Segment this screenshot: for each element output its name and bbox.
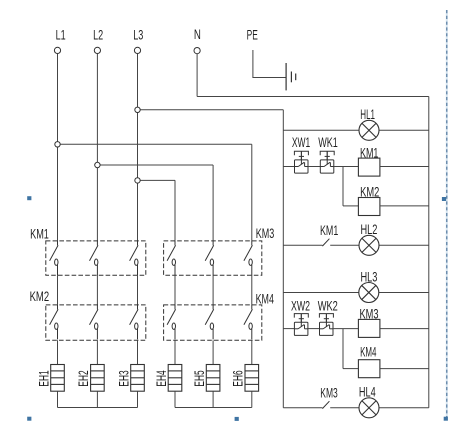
- selection dashed line: [446, 10, 448, 420]
- heater element EH6: [245, 365, 259, 392]
- heater element EH4: [168, 365, 182, 392]
- svg-text:PE: PE: [247, 28, 258, 43]
- wire L1 branch down to KM3 bank: [251, 144, 253, 241]
- svg-text:HL4: HL4: [359, 385, 376, 400]
- svg-text:KM3: KM3: [320, 386, 338, 401]
- selection grip left middle: [27, 196, 31, 200]
- wire x=57.5 between KM1 and KM2 banks: [57, 275, 59, 305]
- node L3 branch 2 junction: [135, 178, 140, 183]
- svg-text:KM1: KM1: [320, 223, 338, 238]
- contact KM4 pole 2: [205, 305, 214, 339]
- wire L3 branch down to KM3 bank: [174, 180, 176, 241]
- contactor KM4 main contacts box: [164, 305, 262, 340]
- wire branch down to KM2 coil: [342, 167, 344, 206]
- wire x=97.4 between KM1 and KM2 banks: [96, 275, 98, 305]
- selection grip right middle: [442, 197, 446, 201]
- contactor coil KM4: [358, 360, 380, 378]
- terminal L3: [134, 47, 140, 53]
- wire x=213.1 bank to heater: [212, 340, 214, 364]
- svg-text:N: N: [194, 27, 201, 42]
- contact KM2 pole 1: [50, 305, 59, 339]
- contact KM4 pole 3: [244, 305, 253, 339]
- lamp HL4: [359, 398, 379, 418]
- wire L2 branch horizontal: [97, 164, 213, 166]
- contact KM1 pole 1: [50, 241, 59, 275]
- wire L3 vertical: [137, 54, 139, 241]
- contact KM3 pole 1: [167, 241, 176, 275]
- svg-text:HL2: HL2: [361, 222, 378, 237]
- contactor KM3 main contacts box: [164, 241, 262, 275]
- svg-text:KM1: KM1: [30, 227, 49, 242]
- svg-text:KM3: KM3: [256, 226, 274, 241]
- heater element EH2: [91, 365, 105, 392]
- contactor KM2 main contacts box: [46, 305, 146, 340]
- terminal L1: [54, 47, 60, 53]
- contact KM4 pole 1: [167, 305, 176, 339]
- wire heater bottom x=175.0: [174, 391, 176, 407]
- wire KM3 coil to right bus: [380, 328, 429, 330]
- svg-text:WK2: WK2: [318, 299, 338, 314]
- svg-text:KM2: KM2: [30, 289, 49, 304]
- svg-text:L3: L3: [133, 28, 143, 43]
- wire KM1 contact to right bus: [330, 244, 429, 246]
- wire heater bottom x=251.8: [251, 391, 253, 407]
- contactor coil KM2: [358, 198, 380, 216]
- wire heater bottom x=57.5: [57, 391, 59, 407]
- thermal switch XW2: [294, 314, 308, 336]
- wire bus to XW2: [283, 328, 294, 330]
- wire WK2 to KM3 coil: [333, 328, 358, 330]
- selection grip left bottom: [27, 417, 31, 421]
- wire N vertical: [196, 54, 198, 97]
- contact KM2 pole 3: [130, 305, 139, 339]
- node L2 branch junction: [95, 162, 100, 167]
- svg-text:WK1: WK1: [318, 135, 338, 150]
- terminal L2: [94, 47, 100, 53]
- wire star point group 1: [58, 407, 138, 409]
- wire KM1 coil to right bus: [380, 166, 429, 168]
- wire HL3 row: [283, 292, 429, 294]
- wire N horizontal to right bus: [197, 96, 429, 98]
- wire XW1 to WK1: [308, 166, 320, 168]
- contact KM3 auxiliary blade: [322, 401, 329, 408]
- wire L1 branch horizontal: [58, 143, 252, 145]
- wire branch to KM4 coil: [343, 368, 358, 370]
- wire heater bottom x=137.5: [137, 391, 139, 407]
- wire bus to XW1: [283, 166, 294, 168]
- svg-text:XW2: XW2: [291, 299, 310, 314]
- contact KM3 pole 2: [205, 241, 214, 275]
- svg-text:L2: L2: [93, 28, 103, 43]
- wire heater bottom x=213.1: [212, 391, 214, 407]
- contact KM3 pole 3: [244, 241, 253, 275]
- heater element EH5: [206, 365, 220, 392]
- svg-text:EH2: EH2: [76, 370, 91, 386]
- earth ground symbol: [286, 63, 296, 90]
- svg-text:EH3: EH3: [116, 370, 131, 386]
- wire KM2 coil to right bus: [380, 205, 429, 207]
- node L1 branch junction: [55, 142, 60, 147]
- lamp HL1: [359, 120, 379, 140]
- node L3 branch junction: [135, 107, 140, 112]
- contact KM1 auxiliary blade: [322, 239, 329, 246]
- wire branch to KM2 coil: [343, 205, 358, 207]
- contactor KM1 main contacts box: [46, 241, 146, 275]
- wire L3 branch to control bus: [138, 109, 284, 111]
- wire star point group 2: [175, 407, 252, 409]
- thermal switch WK1: [320, 151, 334, 173]
- wire x=251.8 between KM3 and KM4 banks: [251, 275, 253, 305]
- right bus (N) vertical: [428, 97, 430, 408]
- wire KM3 contact to right bus: [330, 407, 429, 409]
- wire L2 vertical: [96, 54, 98, 241]
- heater element EH3: [131, 365, 145, 392]
- wire L2 branch down to KM3 bank: [212, 165, 214, 241]
- wire x=97.4 bank to heater: [96, 340, 98, 364]
- svg-text:EH5: EH5: [192, 370, 207, 386]
- wire HL1 row: [283, 129, 429, 131]
- wire x=251.8 bank to heater: [251, 340, 253, 364]
- svg-text:KM4: KM4: [360, 345, 377, 360]
- contact KM1 pole 2: [90, 241, 99, 275]
- heater element EH1: [51, 365, 65, 392]
- wire x=137.5 bank to heater: [137, 340, 139, 364]
- left control bus vertical: [282, 110, 284, 408]
- wire x=175.0 between KM3 and KM4 banks: [174, 275, 176, 305]
- wire x=175.0 bank to heater: [174, 340, 176, 364]
- svg-text:EH1: EH1: [36, 370, 51, 386]
- svg-text:KM4: KM4: [256, 292, 275, 307]
- lamp HL2: [359, 235, 379, 255]
- wire branch down to KM4 coil: [342, 329, 344, 369]
- wire L1 vertical: [57, 54, 59, 241]
- wire XW2 to WK2: [308, 328, 320, 330]
- contact KM2 pole 2: [90, 305, 99, 339]
- wire WK1 to KM1 coil: [334, 166, 359, 168]
- selection grip right bottom: [444, 417, 448, 421]
- contact KM1 pole 3: [130, 241, 139, 275]
- wire L3 branch 2 horizontal: [138, 179, 176, 181]
- wire heater bottom x=97.4: [96, 391, 98, 407]
- wire x=57.5 bank to heater: [57, 340, 59, 364]
- svg-text:XW1: XW1: [292, 135, 310, 150]
- svg-text:L1: L1: [56, 28, 66, 43]
- terminal N: [194, 48, 200, 54]
- PE conductor wire: [253, 50, 286, 78]
- thermal switch WK2: [319, 314, 333, 336]
- thermal switch XW1: [294, 151, 308, 173]
- lamp HL3: [359, 283, 379, 303]
- svg-text:EH6: EH6: [231, 370, 246, 386]
- contactor coil KM1: [358, 158, 380, 176]
- wire bus to KM3 contact: [283, 407, 322, 409]
- contactor coil KM3: [358, 319, 380, 337]
- wire bus to KM1 contact: [283, 244, 322, 246]
- svg-text:EH4: EH4: [154, 370, 169, 387]
- wire x=213.1 between KM3 and KM4 banks: [212, 275, 214, 305]
- wire x=137.5 between KM1 and KM2 banks: [137, 275, 139, 305]
- selection grip middle bottom: [235, 417, 239, 421]
- wire KM4 coil to right bus: [380, 368, 429, 370]
- svg-text:HL1: HL1: [360, 107, 375, 122]
